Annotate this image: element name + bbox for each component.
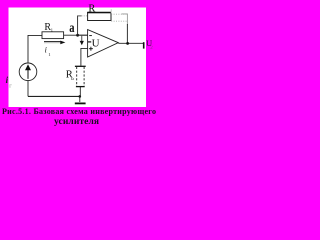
label R3 — [66, 70, 74, 81]
op-amp non-inverting mark — [89, 47, 93, 51]
svg-text:U: U — [92, 37, 100, 49]
wire: op-amp output — [118, 42, 144, 44]
wire: feedback left drop (node a up to R2) — [77, 16, 87, 36]
wire: bottom rail — [28, 95, 80, 97]
wire: non-inverting input down to R3 — [81, 48, 88, 65]
ground — [75, 96, 86, 103]
white schematic panel — [9, 8, 147, 108]
current arrow i1 — [44, 41, 65, 45]
label -U inside op-amp — [88, 37, 100, 49]
wire: R3 bottom to rail — [79, 87, 81, 97]
svg-text:a: a — [69, 20, 74, 36]
current source I — [19, 63, 37, 81]
voltage arrow Ud — [80, 36, 84, 46]
svg-text:2: 2 — [92, 9, 94, 14]
wire: current source bottom to rail — [27, 80, 29, 96]
op-amp U1 — [88, 30, 119, 57]
wire: R1 right to node a — [64, 34, 88, 36]
resistor R3 (dashed) — [75, 66, 86, 86]
junction rail/ground — [79, 95, 82, 98]
resistor R2 (feedback) — [87, 13, 111, 21]
wire: R2 right down to output — [122, 14, 128, 44]
svg-text:Рис.5.1. Базовая схема инверти: Рис.5.1. Базовая схема инвертирующего — [2, 107, 156, 116]
caption line 1 — [2, 107, 156, 127]
label i1 — [45, 45, 51, 57]
ghost extension of R2 (gray dotted) — [111, 14, 127, 21]
svg-text:1: 1 — [51, 28, 53, 33]
svg-text:усилителя: усилителя — [54, 117, 99, 127]
label U2 (output, over border) — [146, 38, 153, 51]
wire: current source top to R1 left — [28, 35, 42, 63]
magenta background — [0, 0, 162, 129]
wire: node a to inverting input — [78, 34, 88, 36]
svg-text:1: 1 — [48, 52, 50, 57]
node a — [69, 20, 79, 37]
svg-text:i: i — [45, 45, 47, 54]
output terminal tick — [143, 42, 145, 48]
junction output/feedback — [126, 42, 129, 45]
label R1 — [44, 22, 53, 33]
resistor R1 — [42, 32, 64, 39]
label i (source, clipped by border) — [6, 75, 13, 90]
op-amp inverting mark — [89, 35, 92, 37]
gray artifact above R2 — [110, 9, 112, 13]
label R2 — [88, 3, 95, 14]
